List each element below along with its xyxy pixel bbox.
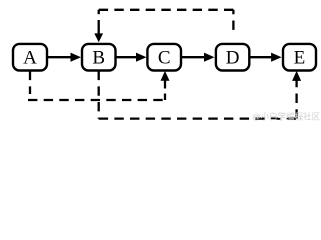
node E (283, 44, 316, 71)
node C (147, 44, 181, 71)
arrow D to E (solid) (249, 53, 281, 62)
dashed arrow A to C (below) (28, 71, 170, 100)
wire horizontal y=100 (28, 99, 165, 101)
arrow B to C (solid) (116, 53, 147, 62)
arrow C to D (solid) (181, 53, 215, 62)
wire A bottom down (29, 71, 31, 94)
wire top horizontal (99, 9, 234, 11)
svg-text:A: A (23, 48, 37, 69)
svg-text:@小白学编程社区: @小白学编程社区 (252, 112, 321, 122)
wire up into E (295, 80, 297, 119)
svg-text:E: E (294, 48, 306, 69)
svg-text:B: B (92, 48, 105, 69)
wire D top up (232, 10, 234, 44)
wire up into C (164, 94, 166, 101)
arrow A to B (solid) (47, 53, 81, 62)
svg-text:C: C (158, 48, 171, 69)
svg-text:D: D (226, 48, 240, 69)
node A (13, 44, 47, 71)
node D (216, 44, 249, 71)
wire B bottom down (98, 71, 100, 119)
node B (82, 44, 116, 71)
dashed arrow B to E (bottom) (99, 71, 301, 119)
wire down into B (98, 20, 100, 35)
dashed arrow D to B (over the top) (94, 10, 233, 44)
wire bottom horizontal y=118.6 (99, 117, 297, 119)
